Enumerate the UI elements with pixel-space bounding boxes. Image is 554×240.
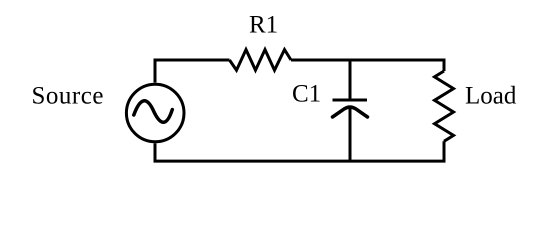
wire capacitor top lead xyxy=(349,60,352,100)
capacitor C1 top plate xyxy=(333,99,368,102)
resistor R1 xyxy=(230,50,292,71)
source U1 sine wave xyxy=(134,101,173,122)
svg-text:C1: C1 xyxy=(292,81,321,108)
wire capacitor bottom lead xyxy=(349,109,352,162)
wire bottom: load bottom lead, bottom rail, up to circle bottom xyxy=(155,141,444,161)
wire top-right: R1 right lead to top-right corner down to load top lead xyxy=(291,60,444,71)
svg-text:Load: Load xyxy=(465,83,517,110)
resistor Load xyxy=(435,71,454,141)
svg-text:R1: R1 xyxy=(249,12,278,39)
capacitor C1 curved plate xyxy=(333,107,368,117)
svg-text:Source: Source xyxy=(32,83,104,110)
wire top-left: circle top to corner to R1 left lead xyxy=(155,60,230,83)
source U1 circle xyxy=(126,84,184,142)
